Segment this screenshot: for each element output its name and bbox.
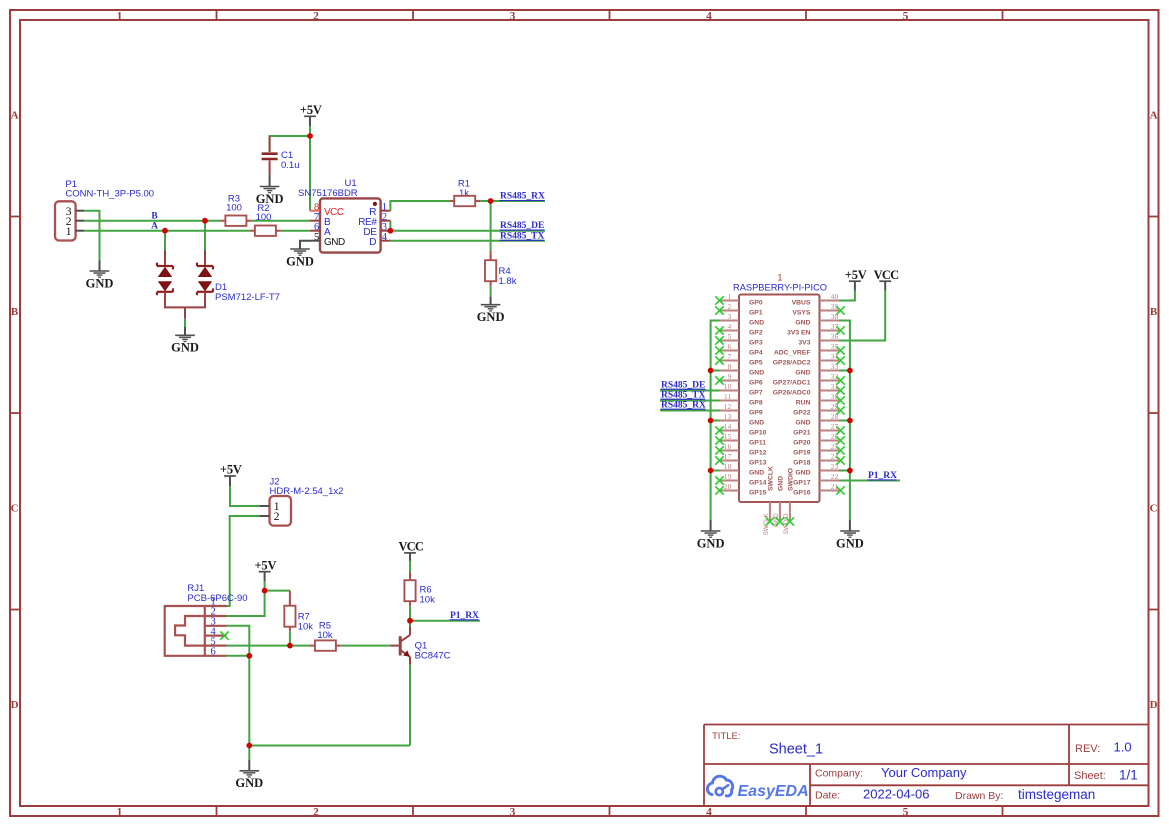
svg-text:GND: GND (749, 319, 764, 326)
pin 2 RE# (381, 220, 391, 222)
pico pin 35 ADC_VREF (774, 343, 845, 356)
svg-text:GP26/ADC0: GP26/ADC0 (773, 389, 811, 396)
wire B to D1 right (204, 221, 206, 251)
svg-text:14: 14 (724, 423, 732, 431)
svg-text:VCC: VCC (874, 268, 899, 282)
pico pin 36 3V3 (798, 333, 839, 346)
pico pin 16 GP12 (715, 443, 766, 456)
pico pin 3 GND (720, 313, 765, 326)
pin 5 GND (310, 240, 320, 242)
svg-text:GND: GND (749, 419, 764, 426)
pico pin 23 GND (795, 463, 839, 476)
svg-text:GND: GND (749, 469, 764, 476)
svg-text:12: 12 (724, 403, 732, 411)
wire pin13 gnd (711, 420, 720, 422)
pico pin 15 GP11 (715, 433, 766, 446)
pico pin 22 GP17 (793, 473, 839, 486)
connector J2 HDR-M-2.54_1x2 (260, 476, 343, 525)
junction pin18 (dot) (708, 468, 714, 474)
svg-text:GND: GND (697, 536, 725, 550)
diode D1 PSM712-LF-T7 (157, 251, 280, 319)
pico pin 5 GP3 (715, 333, 763, 346)
svg-text:CONN-TH_3P-P5.00: CONN-TH_3P-P5.00 (65, 189, 154, 200)
svg-text:+5V: +5V (220, 463, 242, 477)
svg-text:VSYS: VSYS (792, 309, 811, 316)
svg-text:GP18: GP18 (793, 459, 811, 466)
ground pico right (836, 520, 864, 550)
wire U1 pin2 to pin3 (389, 221, 391, 231)
svg-text:19: 19 (724, 473, 732, 481)
pico pin 11 GP8 (720, 393, 763, 406)
power VCC (pico) (874, 268, 899, 291)
svg-text:10k: 10k (317, 630, 333, 641)
svg-text:EasyEDA: EasyEDA (738, 783, 809, 800)
svg-text:3V3 EN: 3V3 EN (787, 329, 811, 336)
svg-text:GP3: GP3 (749, 339, 763, 346)
capacitor C1 0.1u (262, 136, 300, 175)
svg-text:GP14: GP14 (749, 479, 767, 486)
wire pin8 gnd (711, 370, 720, 372)
ground under D1 (171, 327, 199, 355)
svg-text:ADC_VREF: ADC_VREF (774, 349, 811, 356)
pico pin 25 GP19 (793, 443, 845, 456)
junction +5V/C1 (dot) (307, 133, 313, 139)
svg-text:GP17: GP17 (793, 479, 811, 486)
svg-text:1: 1 (117, 806, 123, 818)
wire to C1 (270, 136, 310, 152)
pico pin 2 GP1 (715, 303, 763, 316)
pico pin 6 GP4 (715, 343, 763, 356)
svg-text:17: 17 (724, 453, 732, 461)
svg-text:GP2: GP2 (749, 329, 763, 336)
wire RJ1 pin5 to R5 (227, 645, 310, 647)
pin 7 B (310, 220, 320, 222)
svg-text:GP22: GP22 (793, 409, 811, 416)
junction +5V/R7 (dot) (262, 588, 268, 594)
wire R2 to U1 pin6 (281, 230, 310, 232)
svg-text:18: 18 (724, 463, 732, 471)
wire D1 to ground (184, 319, 186, 327)
ground under C1 (256, 175, 284, 206)
wire RS485_DE to GP7 (660, 390, 720, 392)
power VCC (Q1) (398, 540, 423, 561)
wire junction to Q1 collector (409, 621, 411, 627)
svg-text:1: 1 (117, 10, 123, 22)
svg-text:Sheet:: Sheet: (1074, 770, 1106, 782)
svg-text:GND: GND (749, 369, 764, 376)
svg-text:23: 23 (831, 463, 839, 471)
svg-text:GND: GND (235, 776, 263, 790)
pin 4 D (381, 240, 391, 242)
svg-text:3: 3 (510, 806, 516, 818)
no-connect RJ1 pin4 (220, 631, 228, 639)
svg-text:5: 5 (314, 232, 319, 243)
wire R7 bottom to base net (289, 632, 291, 646)
wire pin33 gnd (839, 370, 850, 372)
svg-text:GND: GND (86, 276, 114, 290)
svg-text:D: D (11, 699, 19, 711)
svg-text:VCC: VCC (398, 540, 423, 554)
svg-text:GP21: GP21 (793, 429, 811, 436)
wire J2 pin2 to RJ1 pin1 (227, 516, 261, 606)
svg-text:10k: 10k (420, 595, 436, 606)
resistor R4 1.8k (485, 251, 517, 287)
svg-text:VBUS: VBUS (792, 299, 811, 306)
svg-text:GND: GND (795, 319, 810, 326)
pico pin 32 GP27/ADC1 (773, 373, 845, 386)
wire R6 to collector junction (409, 606, 411, 621)
op-amp U1 SN75176BDR (298, 178, 391, 252)
pico pin 21 GP16 (793, 483, 845, 496)
pico pin 4 GP2 (715, 323, 763, 336)
pico pin 1 GP0 (715, 293, 763, 306)
svg-text:36: 36 (831, 333, 839, 341)
junction P1_RX (dot) (407, 618, 413, 624)
svg-text:16: 16 (724, 443, 732, 451)
svg-text:GP13: GP13 (749, 459, 767, 466)
wire junction to R7 top (265, 590, 290, 592)
svg-text:BC847C: BC847C (415, 651, 451, 662)
svg-text:1: 1 (66, 226, 72, 238)
svg-text:3: 3 (510, 10, 516, 22)
svg-text:A: A (11, 109, 19, 121)
svg-text:GP9: GP9 (749, 409, 763, 416)
resistor R3 (220, 194, 251, 226)
svg-text:3: 3 (728, 313, 732, 321)
svg-text:38: 38 (831, 313, 839, 321)
svg-text:GND: GND (836, 536, 864, 550)
power +5V (RJ1) (254, 558, 276, 581)
svg-text:TITLE:: TITLE: (712, 731, 741, 742)
pico pin 38 GND (795, 313, 839, 326)
svg-text:Your Company: Your Company (881, 765, 967, 780)
junction RS485_RX / R4 (dot) (488, 198, 494, 204)
svg-text:10k: 10k (298, 622, 314, 633)
svg-text:RUN: RUN (796, 399, 811, 406)
svg-text:Company:: Company: (815, 768, 863, 780)
svg-text:C: C (11, 502, 19, 514)
pico pin 17 GP13 (715, 453, 766, 466)
svg-text:2: 2 (313, 10, 319, 22)
resistor R2 (250, 203, 281, 236)
pico pin 33 GND (795, 363, 839, 376)
wire net B (84, 220, 220, 222)
pico pin 30 RUN (796, 393, 845, 406)
pico pin 34 GP28/ADC2 (773, 353, 845, 366)
svg-text:40: 40 (831, 293, 839, 301)
pico pin 28 GND (795, 413, 839, 426)
connector RJ1 PCB-6P6C-90 (165, 583, 248, 658)
power +5V (pico) (845, 268, 867, 291)
svg-text:B: B (151, 211, 158, 221)
svg-text:7: 7 (728, 353, 732, 361)
ground pico left (697, 520, 725, 550)
svg-text:GP6: GP6 (749, 379, 763, 386)
IC RASPBERRY-PI-PICO (733, 272, 827, 502)
wire pin18 gnd (711, 470, 720, 472)
svg-text:2022-04-06: 2022-04-06 (863, 787, 930, 802)
svg-text:4: 4 (706, 806, 712, 818)
svg-text:B: B (1150, 306, 1158, 318)
svg-text:GND: GND (324, 237, 345, 248)
junction pin3/pin6 (dot) (246, 653, 252, 659)
svg-text:SWCLK: SWCLK (768, 466, 775, 491)
wire junction down to R4 (490, 201, 492, 251)
transistor Q1 BC847C (390, 627, 450, 665)
pico pin 13 GND (720, 413, 765, 426)
wire VCC to R6 (409, 561, 411, 572)
wire to ground (248, 746, 250, 761)
pico pin 10 GP7 (720, 383, 763, 396)
wire +5V to VBUS (839, 291, 855, 301)
svg-text:15: 15 (724, 433, 732, 441)
wire RJ1 pin6 (227, 655, 250, 657)
pin 3 DE (381, 230, 391, 232)
svg-text:Drawn By:: Drawn By: (955, 790, 1003, 802)
svg-text:PSM712-LF-T7: PSM712-LF-T7 (215, 292, 280, 303)
svg-text:10: 10 (724, 383, 732, 391)
svg-text:+5V: +5V (254, 558, 276, 572)
wire RS485_RX to GP9 (660, 410, 720, 412)
svg-text:2: 2 (728, 303, 732, 311)
wire U1 pin1 to R1 (390, 201, 449, 211)
pico pin 31 GP26/ADC0 (773, 383, 845, 396)
svg-text:timstegeman: timstegeman (1018, 787, 1095, 802)
junction R7/base (dot) (287, 643, 293, 649)
svg-text:GP11: GP11 (749, 439, 766, 446)
svg-text:D: D (369, 237, 376, 248)
pico pin 39 VSYS (792, 303, 844, 316)
ground under P1 (86, 261, 114, 291)
svg-text:B: B (11, 306, 19, 318)
svg-text:GND: GND (256, 192, 284, 206)
svg-text:GP28/ADC2: GP28/ADC2 (773, 359, 811, 366)
svg-text:1: 1 (777, 272, 782, 282)
svg-text:GND: GND (795, 419, 810, 426)
svg-text:GND: GND (286, 254, 314, 268)
title block (704, 725, 1149, 807)
svg-text:RASPBERRY-PI-PICO: RASPBERRY-PI-PICO (733, 282, 827, 292)
svg-text:6: 6 (211, 647, 216, 658)
wire P1 pin3 to GND (84, 211, 99, 261)
junction gnd rail (dot) (246, 743, 252, 749)
svg-text:+5V: +5V (845, 268, 867, 282)
svg-text:13: 13 (724, 413, 732, 421)
svg-text:GP1: GP1 (749, 309, 763, 316)
wire RJ1 pin3 down (227, 626, 250, 746)
svg-text:GP7: GP7 (749, 389, 763, 396)
svg-text:5: 5 (903, 806, 909, 818)
wire R1 to RS485_RX (480, 200, 545, 202)
junction on A (dot) (162, 228, 168, 234)
wire pico right gnd rail (839, 321, 850, 521)
svg-text:SWDIO: SWDIO (788, 468, 795, 491)
wire net A (84, 230, 250, 232)
svg-text:5: 5 (728, 333, 732, 341)
svg-text:6: 6 (728, 343, 732, 351)
svg-text:GND: GND (795, 369, 810, 376)
svg-text:22: 22 (831, 473, 839, 481)
junction pin8 (dot) (708, 368, 714, 374)
wire RS485_TX to GP8 (660, 400, 720, 402)
wire R3 to U1 pin7 (251, 220, 310, 222)
pico pin 26 GP20 (793, 433, 845, 446)
pico pin 7 GP5 (715, 353, 763, 366)
svg-text:5: 5 (903, 10, 909, 22)
svg-text:+5V: +5V (300, 103, 322, 117)
wire RS485_TX (391, 240, 545, 242)
connector P1 CONN-TH_3P-P5.00 (55, 179, 154, 241)
power +5V (top) (300, 103, 322, 126)
pico pin 18 GND (720, 463, 765, 476)
resistor R1 1k (449, 179, 480, 207)
resistor R7 10k (284, 591, 313, 633)
junction on B (dot) (202, 218, 208, 224)
svg-text:Date:: Date: (815, 789, 840, 801)
svg-text:20: 20 (724, 483, 732, 491)
svg-text:8: 8 (728, 363, 732, 371)
pin 1 R (381, 210, 391, 212)
svg-text:2: 2 (274, 511, 280, 523)
pico pin 40 VBUS (792, 293, 839, 306)
svg-text:3V3: 3V3 (798, 339, 810, 346)
svg-text:GND: GND (778, 476, 785, 491)
pico pin 27 GP21 (793, 423, 845, 436)
svg-text:1.8k: 1.8k (499, 276, 517, 287)
svg-text:33: 33 (831, 363, 839, 371)
svg-text:9: 9 (728, 373, 732, 381)
svg-text:GP8: GP8 (749, 399, 763, 406)
pico pin 14 GP10 (715, 423, 766, 436)
wire GP17 to P1_RX (839, 480, 900, 482)
svg-text:REV:: REV: (1075, 743, 1100, 755)
wire A to D1 left (164, 231, 166, 251)
svg-text:GND: GND (795, 469, 810, 476)
pico pin 19 GP14 (715, 473, 766, 486)
wire emitter to gnd rail (249, 745, 410, 747)
pico bottom pin SWCLK (763, 466, 775, 535)
junction pin23 (dot) (847, 468, 853, 474)
ground under R4 (477, 297, 505, 324)
svg-text:GP16: GP16 (793, 489, 811, 496)
wire R5 to Q1 base (341, 645, 390, 647)
svg-text:GP4: GP4 (749, 349, 763, 356)
pico pin 12 GP9 (720, 403, 763, 416)
svg-text:GP15: GP15 (749, 489, 767, 496)
power +5V (J2) (220, 463, 242, 486)
pico pin 9 GP6 (715, 373, 763, 386)
svg-text:1: 1 (728, 293, 732, 301)
svg-text:GP10: GP10 (749, 429, 767, 436)
wire R4 to ground (490, 286, 492, 297)
svg-text:Sheet_1: Sheet_1 (769, 742, 823, 758)
svg-text:A: A (1150, 109, 1158, 121)
svg-text:GP19: GP19 (793, 449, 811, 456)
svg-text:1/1: 1/1 (1119, 767, 1138, 782)
pico pin 24 GP18 (793, 453, 845, 466)
wire pico left gnd rail (711, 321, 720, 521)
wire RJ1 pin2 to +5V junction (227, 591, 265, 616)
pico pin 8 GND (720, 363, 765, 376)
junction pin33 (dot) (847, 368, 853, 374)
svg-text:GND: GND (171, 341, 199, 355)
pico pin 37 3V3 EN (787, 323, 845, 336)
resistor R6 10k (404, 572, 435, 606)
pico pin 29 GP22 (793, 403, 845, 416)
ground bottom left (235, 760, 263, 790)
svg-text:GP5: GP5 (749, 359, 763, 366)
svg-text:100: 100 (256, 212, 272, 223)
wire P1_RX (410, 620, 480, 622)
svg-text:4: 4 (382, 232, 388, 243)
wire pin28 gnd (839, 420, 850, 422)
svg-text:100: 100 (226, 203, 242, 214)
junction pin28 (dot) (847, 418, 853, 424)
svg-text:2: 2 (313, 806, 319, 818)
pico pin 20 GP15 (715, 483, 766, 496)
wire VCC to 3V3 (839, 291, 885, 341)
wire +5V to J2 pin1 (230, 486, 260, 506)
svg-text:GP12: GP12 (749, 449, 767, 456)
svg-text:4: 4 (706, 10, 712, 22)
svg-text:GP0: GP0 (749, 299, 763, 306)
pin 6 A (310, 230, 320, 232)
junction pin13 (dot) (708, 418, 714, 424)
svg-text:PCB-6P6C-90: PCB-6P6C-90 (187, 593, 247, 604)
wire RS485_DE (390, 230, 545, 232)
svg-text:28: 28 (831, 413, 839, 421)
wire +5V down to U1 pin8 (309, 126, 311, 210)
svg-text:11: 11 (724, 393, 732, 401)
svg-text:GP27/ADC1: GP27/ADC1 (773, 379, 811, 386)
ground under U1 pin5 (286, 241, 314, 269)
svg-text:4: 4 (728, 323, 732, 331)
svg-text:GND: GND (477, 310, 505, 324)
svg-text:C: C (1150, 502, 1158, 514)
junction DE (dot) (388, 228, 394, 234)
resistor R5 10k (310, 620, 341, 651)
svg-text:0.1u: 0.1u (281, 160, 300, 171)
wire Q1 emitter down (409, 665, 411, 746)
svg-text:1.0: 1.0 (1114, 740, 1132, 755)
wire pin23 gnd (839, 470, 850, 472)
EasyEDA logo (707, 776, 808, 800)
pico bottom pin SWDIO (783, 468, 795, 534)
wire +5V stem (264, 581, 266, 591)
svg-text:A: A (151, 221, 158, 231)
svg-text:GP20: GP20 (793, 439, 811, 446)
pin 8 VCC (310, 210, 320, 212)
svg-text:D: D (1150, 699, 1158, 711)
pico bottom pin GND (773, 476, 785, 527)
